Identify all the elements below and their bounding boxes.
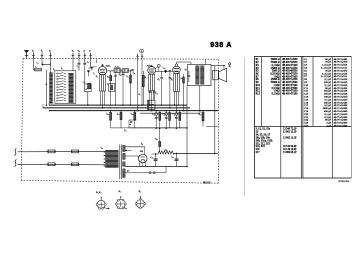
svg-text:R₁₀: R₁₀ (180, 78, 183, 80)
svg-text:C6: C6 (304, 72, 308, 75)
svg-text:C₃: C₃ (87, 61, 89, 63)
svg-text:4B 72 31/410: 4B 72 31/410 (334, 98, 348, 101)
svg-text:4B 403 47/100: 4B 403 47/100 (282, 90, 298, 93)
tube V2 AF2 IF amplifier (148, 65, 156, 91)
svg-text:4B 403 51/500: 4B 403 51/500 (282, 58, 298, 61)
svg-text:4B 72 41/450: 4B 72 41/450 (334, 104, 348, 107)
svg-text:4B 70 41/416: 4B 70 41/416 (334, 93, 348, 96)
wire tube V3 electrodes down (175, 92, 179, 111)
svg-text:4B 70 41/416: 4B 70 41/416 (334, 90, 348, 93)
label Câ (83, 82, 85, 84)
svg-text:4B 403 47/100: 4B 403 47/100 (282, 84, 298, 87)
svg-text:C1: C1 (304, 58, 308, 61)
capacitor C12 (148, 91, 151, 94)
svg-text:R8: R8 (256, 78, 260, 81)
capacitor C1 (42, 63, 51, 66)
svg-text:B₁,B₂: B₁,B₂ (96, 192, 101, 194)
terminal T1 aerial tap (32, 51, 35, 59)
svg-text:13 540 72,1P: 13 540 72,1P (283, 128, 297, 131)
svg-text:0,1 μF: 0,1 μF (325, 78, 332, 81)
svg-text:5000 pF: 5000 pF (323, 107, 332, 110)
svg-text:4B 72 31/410: 4B 72 31/410 (334, 113, 348, 116)
svg-text:T₄: T₄ (72, 51, 74, 53)
svg-text:C₁₄: C₁₄ (163, 68, 166, 70)
svg-text:C11: C11 (304, 87, 309, 90)
svg-text:85 pF: 85 pF (325, 58, 331, 61)
wire gang to grid (91, 59, 97, 70)
svg-text:S₁₃: S₁₃ (133, 72, 136, 74)
capacitor C15 electrolytic (155, 111, 158, 129)
svg-text:R₁₃: R₁₃ (131, 114, 134, 116)
label Rââ (199, 114, 202, 116)
svg-text:B₄: B₄ (139, 191, 142, 193)
mains plug (15, 149, 17, 167)
label Cââ (152, 114, 155, 116)
svg-text:S8a, S8b, S9a: S8a, S8b, S9a (256, 136, 271, 139)
svg-text:450 pF: 450 pF (324, 110, 332, 113)
svg-text:R6: R6 (256, 73, 260, 76)
capacitor C13 (153, 92, 156, 100)
resistor R8 grid leak (160, 71, 163, 105)
svg-text:C15: C15 (304, 98, 309, 101)
svg-text:S9b, S10a, S10b: S9b, S10a, S10b (256, 139, 274, 142)
svg-text:0,1 μF: 0,1 μF (325, 84, 332, 87)
wire screen bus (129, 127, 187, 129)
svg-text:R₆: R₆ (145, 77, 147, 79)
svg-text:100 pF: 100 pF (324, 96, 332, 99)
svg-text:C₂₄: C₂₄ (171, 157, 174, 159)
svg-text:R₉: R₉ (171, 79, 173, 81)
svg-text:2–11,5 pF: 2–11,5 pF (321, 67, 332, 70)
svg-text:R4: R4 (256, 67, 260, 70)
svg-text:13 961 12,1P: 13 961 12,1P (283, 131, 297, 134)
wire aerial input (34, 59, 51, 73)
svg-text:4B 71 41/450: 4B 71 41/450 (334, 107, 348, 110)
svg-text:S₁: S₁ (53, 69, 55, 71)
tube V1 AK2 mixer (98, 64, 106, 91)
svg-text:1 MΩ: 1 MΩ (274, 75, 280, 78)
label Râ (139, 94, 141, 96)
label Sââ (185, 69, 188, 71)
svg-text:165 pF: 165 pF (324, 93, 332, 96)
svg-text:B₃: B₃ (119, 191, 122, 193)
svg-text:R₁₉: R₁₉ (155, 138, 158, 140)
svg-text:4B 70 41/445: 4B 70 41/445 (334, 110, 348, 113)
wire heater run (125, 167, 166, 174)
antenna (24, 50, 29, 58)
label Cââ (162, 114, 165, 116)
IF transformer T_IF1 (107, 69, 134, 73)
wire ground bus 2 (43, 107, 190, 109)
wire ground bus 1 (49, 104, 187, 106)
wire rectifier pins (139, 162, 145, 167)
svg-text:R₂: R₂ (96, 76, 98, 78)
resistor R12 decoupling (120, 111, 122, 128)
svg-text:T₂: T₂ (41, 51, 43, 53)
rectifier tube V4 (139, 154, 148, 163)
power transformer core (120, 145, 122, 180)
label Râ (107, 76, 109, 78)
svg-text:R₁₁: R₁₁ (106, 114, 109, 116)
power transformer secondary heater 3 (122, 169, 125, 178)
capacitor C9 (122, 71, 125, 105)
label Cââ (171, 157, 174, 159)
label Cââ (150, 157, 153, 159)
resistor R4 (130, 69, 133, 105)
svg-text:18 510 09,6P: 18 510 09,6P (283, 145, 297, 148)
label Bâ (141, 144, 143, 146)
label Sâ (61, 68, 63, 70)
svg-text:S16: S16 (256, 148, 261, 151)
terminal pickup right (141, 54, 144, 60)
svg-text:R₃: R₃ (107, 76, 109, 78)
svg-text:4B 74 61/400: 4B 74 61/400 (334, 122, 348, 125)
svg-text:25000 Ω: 25000 Ω (271, 67, 280, 70)
resistor R11 decoupling (110, 111, 129, 128)
power transformer T1 primary (104, 150, 119, 168)
resistor R19 bleeder (159, 128, 161, 152)
svg-text:4B 403 51/250: 4B 403 51/250 (282, 67, 298, 70)
svg-text:S3: S3 (256, 131, 259, 134)
label 4V (127, 171, 130, 173)
svg-text:50 pF: 50 pF (325, 87, 331, 90)
svg-text:C12: C12 (304, 90, 309, 93)
svg-text:0,1 MΩ: 0,1 MΩ (272, 93, 280, 96)
svg-text:C7: C7 (304, 75, 308, 78)
potentiometer R7 volume (148, 100, 155, 109)
power transformer secondary heater 1 (122, 153, 125, 159)
svg-text:C₂₀: C₂₀ (124, 130, 127, 132)
power transformer secondary heater 2 (122, 162, 125, 167)
svg-text:5000 Ω: 5000 Ω (272, 70, 280, 73)
svg-text:S4, S5, S6, S7: S4, S5, S6, S7 (256, 134, 271, 137)
fuse top (72, 150, 79, 153)
label Râ (145, 77, 147, 79)
wire transformer secondary down (187, 86, 200, 167)
resistor R9 (169, 71, 172, 108)
svg-text:C10: C10 (304, 84, 309, 87)
svg-text:R3: R3 (256, 64, 260, 67)
capacitor C23 electrolytic (154, 154, 158, 167)
svg-text:4B 403 47/250: 4B 403 47/250 (282, 73, 298, 76)
IF transformer S9 S10 label (115, 67, 121, 69)
svg-text:A: A (83, 50, 85, 53)
title 938 A (210, 40, 232, 49)
grid cap V2 (155, 64, 160, 71)
svg-text:R₁₂: R₁₂ (117, 114, 120, 116)
svg-text:13 962 11,1P: 13 962 11,1P (283, 136, 297, 139)
svg-text:4B 73 11/211: 4B 73 11/211 (334, 75, 348, 78)
resistor R15 (169, 111, 171, 129)
wire HT rail right (214, 66, 216, 153)
svg-text:C₄: C₄ (93, 73, 95, 75)
resistor R17 tone (202, 111, 204, 127)
terminal T&#8325; (78, 51, 81, 59)
wire terminal E down (89, 59, 91, 68)
capacitor C30 trimmer by speaker (228, 63, 230, 67)
capacitor C14 coupling (156, 70, 173, 73)
svg-text:R12: R12 (256, 90, 261, 93)
svg-text:4B 403 51/250: 4B 403 51/250 (282, 78, 298, 81)
svg-text:E: E (89, 51, 91, 53)
terminal T3 aerial tap (49, 51, 52, 59)
svg-text:C20: C20 (304, 113, 309, 116)
svg-text:50000 Ω: 50000 Ω (271, 81, 280, 84)
svg-text:C₁₇: C₁₇ (172, 114, 175, 116)
svg-text:S₁₅: S₁₅ (185, 69, 188, 71)
svg-text:450 pF: 450 pF (324, 101, 332, 104)
svg-text:9B 010: 9B 010 (203, 182, 211, 185)
svg-text:C8: C8 (304, 78, 308, 81)
wire terminal T4 to coil box (72, 59, 74, 71)
wire speaker feed (206, 59, 225, 66)
svg-text:C₁₅: C₁₅ (152, 114, 155, 116)
wire B+ line (174, 152, 219, 154)
svg-text:4B 70 31/470: 4B 70 31/470 (334, 69, 348, 72)
svg-text:R₄: R₄ (126, 76, 128, 78)
svg-text:67 851 05.1: 67 851 05.1 (339, 181, 351, 183)
svg-text:100 pF: 100 pF (324, 81, 332, 84)
svg-text:C14: C14 (304, 96, 309, 99)
svg-text:R13: R13 (256, 93, 261, 96)
svg-text:506: 506 (140, 151, 144, 153)
label Câ (107, 84, 109, 86)
svg-text:B₄: B₄ (141, 144, 143, 146)
svg-text:S₁₆: S₁₆ (101, 148, 104, 150)
resistor R13 decoupling (134, 111, 136, 128)
svg-text:S₁₁S₁₂: S₁₁S₁₂ (115, 67, 121, 69)
svg-text:50000 Ω: 50000 Ω (271, 58, 280, 61)
label Rââ (131, 114, 134, 116)
parts table resistor list (256, 58, 298, 95)
svg-text:C₉: C₉ (119, 74, 121, 76)
svg-text:C₈: C₈ (107, 84, 109, 86)
parts table capacitor list (304, 58, 348, 128)
svg-text:1 MΩ: 1 MΩ (274, 84, 280, 87)
tube socket diagram B1 B2 (96, 192, 109, 209)
svg-text:1–5,5 pF: 1–5,5 pF (322, 72, 332, 75)
padder capacitor C7 (88, 83, 91, 89)
svg-text:C22: C22 (304, 119, 309, 122)
label Râ (171, 79, 173, 81)
svg-text:R₁₇: R₁₇ (199, 114, 202, 116)
svg-text:4B 72 41/450: 4B 72 41/450 (334, 116, 348, 119)
loudspeaker LS (213, 66, 227, 82)
svg-text:C₅: C₅ (83, 82, 85, 84)
output transformer T2 (188, 65, 212, 86)
svg-text:S17: S17 (256, 151, 261, 154)
tube socket diagram B4 (135, 191, 145, 209)
wire feed line right (206, 125, 218, 127)
wire rectifier mesh (125, 147, 145, 158)
capacitor C16 electrolytic (165, 111, 168, 129)
resistor R6 (142, 71, 144, 105)
svg-text:C16: C16 (304, 101, 309, 104)
coil L2 oscillator winding (69, 73, 74, 103)
svg-text:C21: C21 (304, 116, 309, 119)
svg-text:C3: C3 (304, 64, 308, 67)
label Rââ (106, 114, 109, 116)
svg-text:C18: C18 (304, 107, 309, 110)
terminal pickup left (136, 54, 139, 60)
svg-text:R₁₈: R₁₈ (165, 149, 168, 151)
wire screen feed (132, 69, 134, 71)
svg-text:165 pF: 165 pF (324, 90, 332, 93)
svg-text:S₂: S₂ (61, 68, 63, 70)
band switch S1 assembly box (55, 71, 76, 104)
svg-text:4V: 4V (127, 171, 130, 173)
svg-text:4B 70 41/445: 4B 70 41/445 (334, 101, 348, 104)
tube V3 E443H output (173, 64, 181, 92)
capacitor C11 IF drop (119, 73, 121, 75)
sheet number (339, 181, 351, 183)
tube V2 AF2 label (147, 64, 152, 67)
label Sââ (133, 72, 136, 74)
label Rââ (117, 114, 120, 116)
svg-text:4B 73 11/155: 4B 73 11/155 (334, 72, 348, 75)
svg-text:2–11,5 pF: 2–11,5 pF (321, 75, 332, 78)
svg-text:S14, S15: S14, S15 (256, 145, 266, 148)
trimmer capacitor C3 (78, 59, 81, 71)
svg-text:R10: R10 (256, 84, 261, 87)
wire ground bus 3 (49, 110, 218, 112)
svg-text:C2: C2 (304, 61, 308, 64)
svg-text:R9: R9 (256, 81, 260, 84)
svg-text:4B 73 11/211: 4B 73 11/211 (334, 67, 348, 70)
wire tube V2 electrodes down (150, 91, 154, 111)
capacitor C17 electrolytic (175, 111, 178, 129)
wire to band switch (46, 70, 47, 105)
label Câ (119, 74, 121, 76)
svg-text:0,5 μF: 0,5 μF (325, 104, 332, 107)
svg-text:R₇: R₇ (139, 94, 141, 96)
terminal E (89, 51, 92, 59)
resistor R16 (179, 111, 181, 129)
capacitor C18 boxed (129, 120, 137, 128)
svg-text:4B 72 31/410: 4B 72 31/410 (334, 78, 348, 81)
fuse bottom (72, 163, 79, 166)
resistor R3 anode (110, 71, 112, 105)
label Câ (77, 66, 79, 68)
svg-text:4 μF: 4 μF (326, 122, 331, 125)
label Cââ (155, 93, 158, 95)
terminal T&#8324; (72, 51, 75, 59)
label Cââ (172, 114, 175, 116)
svg-text:60 pF: 60 pF (325, 119, 331, 122)
svg-text:938 A: 938 A (210, 40, 232, 49)
svg-text:4B 70 31/460: 4B 70 31/460 (334, 119, 348, 122)
power transformer secondary HT (122, 145, 125, 151)
tube socket diagram B3 (115, 191, 127, 209)
svg-text:4B 403 53/530: 4B 403 53/530 (282, 61, 298, 64)
svg-text:4B 70 31/450: 4B 70 31/450 (334, 87, 348, 90)
svg-text:4B 403 51/500: 4B 403 51/500 (282, 81, 298, 84)
svg-text:25000 Ω: 25000 Ω (271, 78, 280, 81)
svg-text:R11: R11 (256, 87, 261, 90)
svg-text:0,5 μF: 0,5 μF (325, 116, 332, 119)
svg-text:C19: C19 (304, 110, 309, 113)
terminal A (83, 50, 86, 59)
svg-text:C4: C4 (304, 67, 308, 70)
variable capacitor C5 tuning gang (85, 84, 92, 105)
svg-text:4B 403 47/100: 4B 403 47/100 (282, 93, 298, 96)
capacitor C6 padder (87, 70, 90, 76)
svg-text:C13: C13 (304, 93, 309, 96)
label Cââ (124, 130, 127, 132)
svg-text:1 MΩ: 1 MΩ (274, 90, 280, 93)
svg-text:4B 74 61/400: 4B 74 61/400 (334, 125, 348, 128)
svg-text:C₁₆: C₁₆ (162, 114, 165, 116)
label Rââ (155, 138, 158, 140)
svg-text:C5: C5 (304, 69, 308, 72)
parts table frame (255, 57, 352, 179)
wire PSU bottom bus (125, 166, 187, 168)
svg-text:C17: C17 (304, 104, 309, 107)
svg-text:S, S1, S2, S3a: S, S1, S2, S3a (256, 128, 271, 131)
svg-text:T₅: T₅ (78, 51, 80, 53)
tube V1 AK2 label (106, 65, 111, 68)
svg-text:R1: R1 (256, 58, 260, 61)
capacitor C10 IF drop (114, 73, 117, 106)
label Râ (96, 76, 98, 78)
svg-text:4B 70 31/410: 4B 70 31/410 (334, 81, 348, 84)
svg-text:T₁: T₁ (32, 51, 34, 53)
svg-text:18 129 16,6P: 18 129 16,6P (283, 148, 297, 151)
label Rââ (180, 78, 183, 80)
label Sâ (53, 69, 55, 71)
svg-text:53000 Ω: 53000 Ω (271, 61, 280, 64)
svg-text:4B 403 47/500: 4B 403 47/500 (282, 87, 298, 90)
wire mains bottom (18, 163, 106, 166)
svg-text:R7: R7 (256, 75, 260, 78)
svg-text:0,1 μF: 0,1 μF (325, 98, 332, 101)
svg-text:S11, S12, S13: S11, S12, S13 (256, 142, 271, 145)
trimmer capacitor C4 (83, 59, 86, 84)
wire bus 4 partial (140, 111, 200, 114)
parts table coil and switch list (256, 128, 297, 154)
capacitor C8 boxed (108, 84, 114, 92)
resistor R14 (159, 111, 161, 129)
label Cââ (163, 68, 166, 70)
svg-text:AK2: AK2 (106, 65, 111, 68)
resistor R18 smoothing (158, 151, 174, 154)
chassis dashed border (21, 58, 218, 183)
wire anode to output transformer (177, 62, 192, 65)
switch S17 mains bottom (48, 163, 55, 166)
svg-text:C₁₂: C₁₂ (155, 93, 158, 95)
svg-text:R2: R2 (256, 61, 260, 64)
label Câ (37, 62, 39, 64)
svg-text:4 μF: 4 μF (326, 125, 331, 128)
svg-text:T₃: T₃ (49, 51, 51, 53)
svg-text:4B 73 11/155: 4B 73 11/155 (334, 64, 348, 67)
fold mark line (244, 57, 246, 196)
svg-text:4B 403 49/500: 4B 403 49/500 (282, 70, 298, 73)
svg-text:70 pF: 70 pF (325, 61, 331, 64)
resistor R1 aerial (35, 67, 42, 71)
svg-text:70 pF: 70 pF (325, 69, 331, 72)
coil L1 aerial winding (49, 73, 52, 104)
wire tube V1 electrodes down (101, 91, 105, 108)
svg-text:4B 70 31/410: 4B 70 31/410 (334, 96, 348, 99)
svg-text:0,25 MΩ: 0,25 MΩ (270, 73, 279, 76)
rectifier tube V4 label (140, 151, 144, 153)
resistor R10 cathode (183, 74, 185, 111)
svg-text:0,1 μF: 0,1 μF (325, 113, 332, 116)
label Câ (93, 73, 95, 75)
svg-text:4B 403 47/100: 4B 403 47/100 (282, 64, 298, 67)
label Rââ (165, 149, 168, 151)
